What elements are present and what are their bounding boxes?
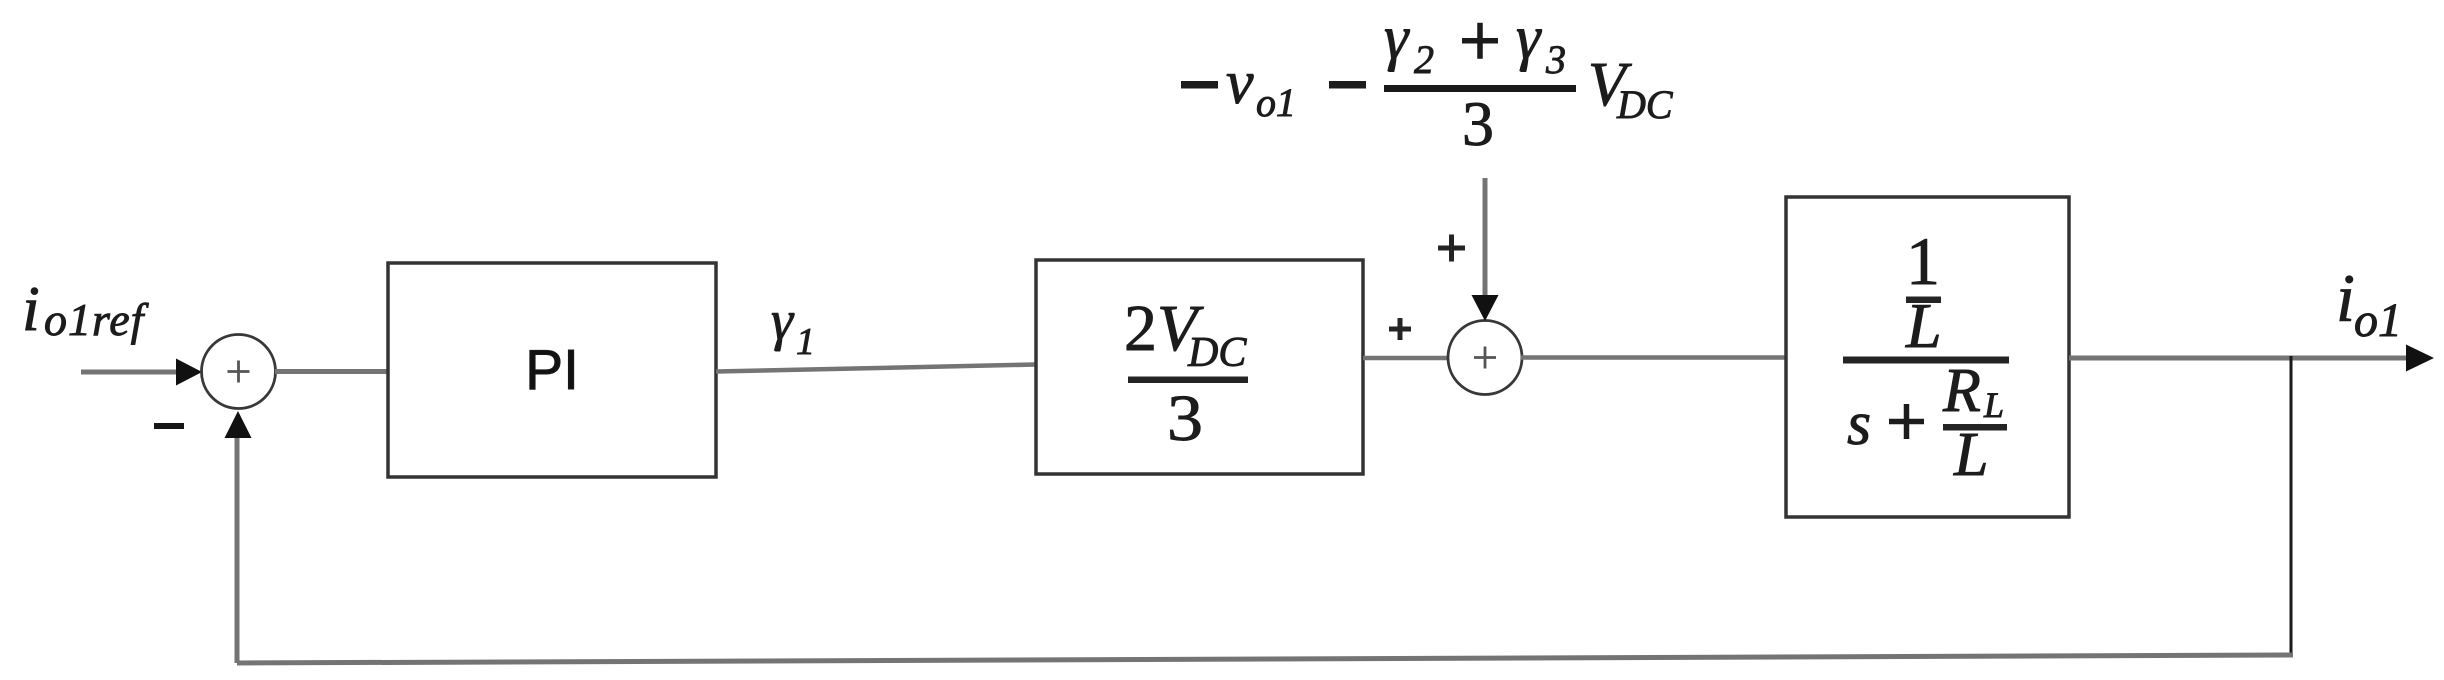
svg-text:2: 2 [1414,37,1434,82]
svg-text:R: R [1942,357,1981,425]
svg-text:DC: DC [1616,82,1674,127]
svg-text:3: 3 [1167,382,1203,455]
fraction bar [1128,377,1248,384]
svg-text:3: 3 [1545,37,1566,82]
block plant 1/L over s+RL/L [1786,197,2069,517]
svg-text:γ: γ [1516,4,1542,72]
plant main fraction bar [1843,357,2009,364]
svg-text:γ: γ [1384,4,1410,72]
wire input arrow line [81,370,180,375]
svg-text:L: L [1905,290,1942,361]
wire S2 to plant block [1521,355,1788,360]
small fraction bar 1/L [1906,297,1941,304]
wire feedback bottom horizontal [237,655,2293,663]
svg-text:γ: γ [771,290,795,352]
feedback arrowhead into S1 [225,411,252,438]
summing junction S1 [202,335,276,409]
plus sign in S1 [228,361,250,383]
wire disturbance vertical arrow [1483,178,1488,299]
plus label beside vertical arrow [1438,235,1465,262]
svg-text:o1: o1 [1256,80,1296,125]
block PI [388,263,716,477]
output arrowhead [2406,345,2434,372]
disturbance arrowhead [1472,295,1499,321]
svg-text:L: L [1953,421,1988,489]
small fraction bar RL/L [1943,424,2007,431]
wire S1 to PI [275,369,390,374]
block gain 2Vdc/3 [1036,260,1363,474]
svg-text:1: 1 [1906,223,1940,299]
svg-text:o1ref: o1ref [44,294,150,345]
wire feedback left vertical [235,437,240,663]
svg-text:i: i [22,273,40,344]
wire gain block to S2 [1363,356,1449,361]
plus label left of S2 [1389,318,1411,340]
svg-text:v: v [1226,49,1254,117]
minus label of S1 [154,423,184,429]
svg-text:s: s [1847,390,1871,458]
svg-text:PI: PI [525,338,579,402]
svg-text:L: L [1983,385,2004,425]
svg-text:3: 3 [1462,88,1494,159]
plus sign in S2 [1474,347,1496,369]
wire feedback right vertical [2290,356,2293,656]
node disturbance formula [1181,81,1218,89]
summing junction S2 [1448,321,1522,395]
svg-text:o1: o1 [2354,294,2402,347]
svg-text:DC: DC [1187,330,1247,376]
svg-text:i: i [2336,260,2355,336]
svg-text:1: 1 [796,321,815,363]
wire plant to output [2069,356,2410,361]
input arrowhead [176,359,202,386]
plant denominator plus [1889,404,1924,439]
wire PI to gain block (slight slope) [716,365,1036,372]
